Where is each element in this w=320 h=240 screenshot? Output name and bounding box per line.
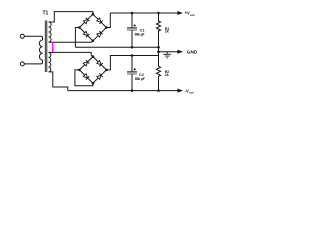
- output arrow GND: [177, 50, 183, 54]
- bridge rectifier BR1 outline: [79, 14, 106, 41]
- diode BR2 left-bottom: [83, 74, 87, 78]
- capacitor C1 plates: [127, 27, 137, 29]
- diode BR2 top-right: [97, 60, 101, 64]
- series link wire (magenta) joining winding A bottom to winding B top: [52, 42, 54, 53]
- capacitor C2 top lead: [131, 56, 133, 72]
- wire ground rail (C1/R1 bottoms): [75, 46, 158, 48]
- junction dot BR1 left vertex: [78, 26, 81, 29]
- transformer T1 secondary winding A (upper): [49, 22, 52, 42]
- resistor R1: [156, 13, 160, 47]
- capacitor C1 top lead: [131, 13, 133, 28]
- resistor R2: [156, 66, 160, 90]
- transformer T1 secondary winding B (lower): [49, 53, 51, 72]
- junction dot ground rail / C1 bottom: [131, 46, 134, 49]
- junction dot BR2 left vertex: [78, 69, 81, 72]
- svg-text:68k µF: 68k µF: [135, 77, 145, 81]
- output arrow +V_out: [177, 11, 183, 15]
- wire -V rail: [68, 90, 178, 92]
- junction dot BR1 top vertex: [92, 13, 95, 16]
- wire secondary B bottom tap to -V rail (staircase): [49, 72, 68, 91]
- junction dot GND arrow junction: [157, 50, 160, 53]
- junction dot BR1 bottom vertex: [92, 40, 95, 43]
- diode BR1 bottom-right: [97, 33, 101, 37]
- junction dot BR2 right vertex: [105, 69, 108, 72]
- transformer T1 primary terminal (top): [20, 34, 24, 38]
- wire BR1 left vertex down to ground rail: [75, 28, 79, 48]
- junction dot ground rail / R1 bottom: [157, 46, 160, 49]
- wire primary winding bottom to bottom terminal: [24, 60, 42, 64]
- transformer T1 core: [45, 21, 47, 73]
- junction dot BR2 bottom vertex: [92, 82, 95, 85]
- capacitor C2 bottom lead: [131, 74, 133, 91]
- transformer T1 primary terminal (bottom): [20, 62, 24, 66]
- diode BR1 left-bottom: [83, 31, 87, 35]
- wire GND arrow stub: [159, 51, 178, 53]
- svg-text:2k: 2k: [165, 30, 169, 34]
- capacitor C1 bottom lead: [131, 30, 133, 47]
- transformer T1 primary winding: [39, 40, 42, 60]
- ground symbol: [163, 52, 171, 58]
- wire primary top terminal to primary winding: [24, 36, 42, 40]
- wire secondary A bottom tap to bridge BR1 bottom vertex (node with series link): [49, 41, 93, 42]
- diode BR2 left-top: [83, 62, 87, 66]
- svg-text:GND: GND: [187, 50, 198, 55]
- junction dot bridge2 rail / C2 top: [131, 54, 134, 57]
- junction dot +V rail / R1: [157, 12, 160, 15]
- junction dot +V rail / C1: [131, 12, 134, 15]
- svg-text:2k: 2k: [165, 73, 169, 77]
- capacitor C1 polarity plus: [134, 24, 136, 26]
- junction dot -V rail / R2 bottom: [157, 89, 160, 92]
- wire BR1 right vertex up to +V rail: [106, 13, 110, 28]
- svg-text:T1: T1: [43, 11, 49, 17]
- junction dot -V rail / C2 bottom: [131, 89, 134, 92]
- capacitor C2 polarity plus: [134, 68, 136, 70]
- junction dot BR1 right vertex: [105, 26, 108, 29]
- wire secondary A top tap to bridge BR1 top vertex: [49, 12, 93, 22]
- wire secondary B top tap to bridge BR2 top vertex: [49, 52, 93, 56]
- diode BR2 bottom-right: [97, 75, 101, 79]
- junction dot BR2 top vertex: [92, 55, 95, 58]
- diode BR1 top-right: [97, 18, 101, 22]
- wire BR2 bottom vertex tied to BR2 left vertex: [75, 70, 93, 86]
- svg-text:68k µF: 68k µF: [135, 32, 145, 36]
- wire BR2 right vertex up to GND rail: [106, 56, 158, 70]
- wire ground rail jog down to GND arrow junction: [158, 47, 160, 66]
- capacitor C2 plates: [127, 71, 137, 73]
- wire +V rail: [110, 12, 178, 14]
- diode BR1 left-top: [83, 19, 87, 23]
- output arrow -V_out: [177, 89, 183, 93]
- bridge rectifier BR2 outline: [79, 57, 106, 84]
